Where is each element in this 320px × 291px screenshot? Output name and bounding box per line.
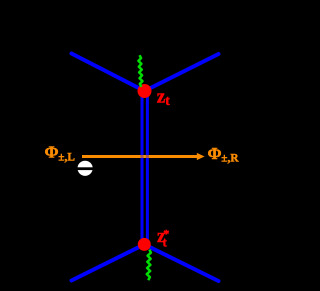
- wire: top-left scalar leg: [72, 54, 145, 92]
- wire: bottom-left scalar leg: [72, 244, 145, 280]
- wire: bottom-right scalar leg: [144, 244, 218, 281]
- wire: vertical double-line propagator right stroke: [146, 91, 149, 244]
- photon: top green wavy line: [138, 55, 142, 87]
- svg-text:Φ: Φ: [45, 143, 59, 162]
- photon: bottom green wavy line: [147, 250, 151, 281]
- svg-text:±,R: ±,R: [221, 152, 239, 164]
- wire: vertical double-line propagator left stroke: [141, 91, 144, 244]
- charge symbol: white circle with minus: [78, 161, 93, 176]
- vertex: bottom red blob zt*: [138, 238, 151, 251]
- svg-text:±,L: ±,L: [58, 152, 75, 164]
- svg-text:t: t: [165, 93, 170, 108]
- wire: orange momentum arrow line: [82, 155, 199, 158]
- svg-text:*: *: [163, 227, 169, 241]
- crossing tint where arrow passes propagator: [141, 155, 144, 158]
- wire: top-right scalar leg: [145, 54, 219, 91]
- svg-text:Φ: Φ: [208, 144, 222, 163]
- arrowhead of momentum arrow: [197, 153, 205, 160]
- vertex: top red blob zt: [138, 84, 152, 98]
